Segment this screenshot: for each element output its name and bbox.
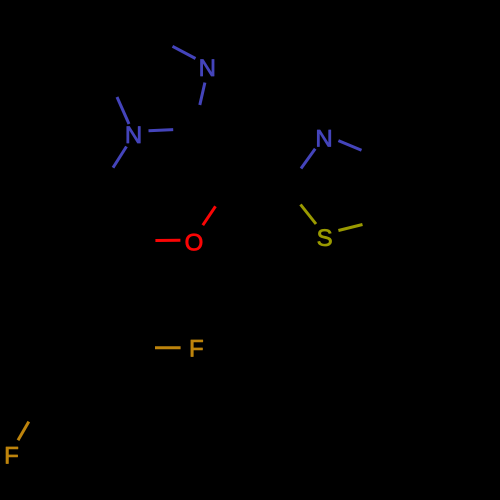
wire O-CH2 half <box>155 239 180 242</box>
svg-text:N: N <box>125 122 142 149</box>
svg-text:N: N <box>315 126 332 153</box>
wire F2-Caryl half <box>18 422 29 441</box>
wire N3-C2 half <box>200 83 205 105</box>
wire C4-N3 half <box>173 46 196 58</box>
svg-text:F: F <box>4 442 19 469</box>
wire S-C5 half <box>338 225 362 231</box>
wire N1-right half <box>149 130 174 131</box>
wire N1-CH2 half <box>113 147 127 168</box>
wire F1-Caryl half <box>155 346 181 349</box>
wire S-C2 half <box>301 205 317 225</box>
wire Nthz-C4 half <box>338 141 361 151</box>
svg-text:N: N <box>199 55 216 82</box>
svg-text:S: S <box>317 225 333 252</box>
svg-text:O: O <box>185 229 204 256</box>
wire Nthz-C2 half <box>301 149 315 169</box>
svg-text:F: F <box>189 335 204 362</box>
wire C5-N1 half <box>117 97 129 124</box>
wire O-Cstar half <box>203 206 216 225</box>
